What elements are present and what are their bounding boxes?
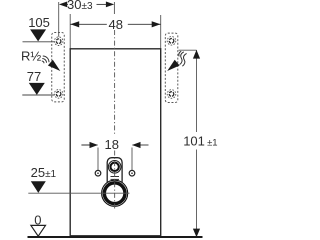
center line (dash-dot) upper (114, 30, 116, 136)
center line (dash-dot) lower over flange (114, 151, 116, 210)
datum 0 (floor) (31, 212, 46, 236)
dimension 18 (81, 137, 148, 170)
svg-text:18: 18 (105, 137, 119, 152)
svg-text:R½: R½ (21, 48, 41, 63)
right anchor dashed box (165, 33, 178, 102)
module outline rectangle (70, 49, 161, 236)
floor line (28, 236, 203, 238)
right squiggle arrow (165, 51, 187, 74)
screw bottom-right (167, 90, 176, 99)
datum 25±1 (28, 165, 129, 193)
screw top-left (54, 37, 63, 46)
svg-text:30±3: 30±3 (67, 0, 93, 12)
screw bottom-left (54, 90, 63, 99)
extension line right top (160, 15, 162, 49)
label R 1/2 with squiggle arrow (21, 48, 63, 74)
dimension 101±1 (179, 50, 218, 237)
svg-text:48: 48 (109, 17, 123, 32)
svg-text:105: 105 (28, 15, 50, 30)
left anchor dashed box (52, 33, 65, 102)
datum 77 (22, 69, 54, 95)
fixing bolt left (95, 170, 101, 176)
dimension 48 (70, 17, 161, 32)
screw top-right (167, 37, 176, 46)
svg-text:77: 77 (27, 69, 41, 84)
dimension 30±3 (59, 0, 115, 37)
datum 105 (23, 15, 55, 42)
flush pipe housing (107, 158, 122, 186)
drain outlet circle (102, 180, 128, 206)
fixing bolt right (129, 170, 135, 176)
extension line left top (module edge extended) (69, 14, 71, 49)
